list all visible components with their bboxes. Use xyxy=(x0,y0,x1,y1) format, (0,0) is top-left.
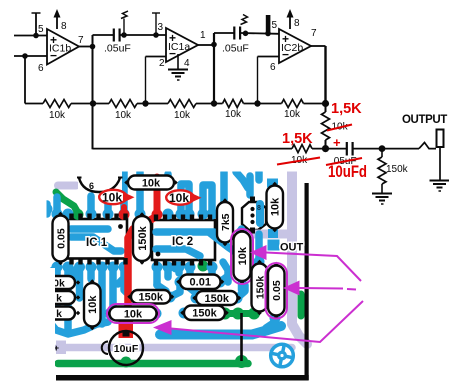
wire row1 d xyxy=(196,103,223,105)
svg-text:10k: 10k xyxy=(49,110,66,121)
wire row1 b xyxy=(71,103,109,105)
capacitor oval 0.05 marked xyxy=(274,262,279,267)
node row1 n3 xyxy=(211,100,217,106)
wire C1 to IC1a xyxy=(121,34,167,36)
svg-text:8: 8 xyxy=(294,18,300,29)
resistor R1 10k xyxy=(43,100,71,108)
resistor R4 10k xyxy=(223,100,244,108)
op-amp U3 IC2b xyxy=(279,29,311,63)
svg-text:7: 7 xyxy=(311,28,317,39)
svg-text:5: 5 xyxy=(38,24,44,35)
svg-text:150k: 150k xyxy=(192,308,217,320)
wire R6 top xyxy=(325,104,327,113)
wire IC1b out riser xyxy=(92,35,94,149)
svg-text:2: 2 xyxy=(159,58,165,69)
svg-text:0.01: 0.01 xyxy=(190,277,211,289)
resistor oval 150k B xyxy=(192,296,197,301)
resistor R5 10k xyxy=(282,100,304,108)
resistor R2 10k xyxy=(109,100,137,108)
green trace top-left xyxy=(56,192,78,213)
op-amp U1 IC1b xyxy=(47,29,79,65)
ground R8 xyxy=(372,193,392,195)
svg-text:8: 8 xyxy=(257,205,261,212)
pcb border right xyxy=(305,183,309,380)
svg-text:10k: 10k xyxy=(87,295,99,314)
IC pins xyxy=(69,214,73,221)
wire pin5 IC1b xyxy=(14,35,47,37)
lavender trace arm xyxy=(254,230,290,239)
svg-text:+: + xyxy=(333,135,341,150)
node pin3 stub xyxy=(155,13,157,35)
node IC1b out xyxy=(90,44,96,50)
wire R6 bottom xyxy=(325,140,327,149)
resistor oval 10k magenta-marked xyxy=(240,228,245,233)
resistor oval 150k A xyxy=(127,294,132,299)
wire jack bump xyxy=(419,143,436,149)
mounting hole crosshair xyxy=(271,344,294,367)
green stub right xyxy=(298,294,305,316)
lavender trace right xyxy=(292,172,307,344)
resistor oval 10k left cut 2 xyxy=(43,291,75,304)
svg-text:5: 5 xyxy=(272,20,278,31)
pot squiggle node A xyxy=(121,11,128,19)
svg-text:IC1b: IC1b xyxy=(49,43,71,55)
svg-text:10k: 10k xyxy=(142,177,161,189)
svg-text:7: 7 xyxy=(78,35,84,46)
green pad top xyxy=(73,209,84,220)
green node big xyxy=(235,355,248,368)
svg-text:k: k xyxy=(56,292,62,304)
jack J1 xyxy=(437,130,444,148)
ground jack xyxy=(430,180,449,182)
node row2 n2 xyxy=(379,145,386,152)
node pin5 junction xyxy=(33,33,39,39)
red highlight 10k #1 xyxy=(99,190,127,204)
op-amp U2 IC1a xyxy=(166,28,198,62)
svg-text:6: 6 xyxy=(89,181,94,191)
node pin6 junction xyxy=(22,53,28,59)
svg-text:1,5K: 1,5K xyxy=(331,101,362,117)
resistor R8 150k xyxy=(378,157,386,184)
capacitor C2 .05uF xyxy=(233,27,235,40)
svg-text:10uF: 10uF xyxy=(114,343,139,355)
resistor oval 150k C xyxy=(180,310,185,315)
svg-text:6: 6 xyxy=(270,62,276,73)
red highlight 10k #2 xyxy=(166,190,194,204)
wire IC2b out riser xyxy=(324,46,326,104)
resistor oval 150k lower-right xyxy=(257,260,262,265)
svg-text:OUTPUT: OUTPUT xyxy=(402,114,447,126)
svg-text:OUT: OUT xyxy=(280,242,304,254)
component arc top-left xyxy=(78,170,122,190)
transistor Q1 pins xyxy=(250,207,254,211)
wire jack ground xyxy=(439,147,441,180)
green ground rail xyxy=(58,360,248,368)
wire row1 a xyxy=(25,103,43,105)
resistor oval 10k top xyxy=(124,180,129,185)
capacitor 10uF circle xyxy=(109,331,143,365)
svg-text:.05uF: .05uF xyxy=(104,43,131,55)
wire IC2b output xyxy=(311,45,326,47)
svg-text:IC 1: IC 1 xyxy=(86,237,108,249)
resistor oval 10k left cut 3 xyxy=(43,307,75,320)
wire to C2 xyxy=(214,32,234,34)
red trace vertical top xyxy=(154,177,161,212)
resistor oval 10k left cut 1 xyxy=(43,276,75,289)
resistor R7 10k crossed xyxy=(292,145,312,153)
node pin5 thick stub xyxy=(266,15,271,34)
wire R8 bottom xyxy=(381,184,383,193)
power arrow pin8 IC1b xyxy=(56,16,58,29)
node IC1a out xyxy=(211,42,217,48)
magenta highlight 10k horizontal xyxy=(107,304,159,323)
svg-text:0.05: 0.05 xyxy=(271,280,283,301)
wire row2 c xyxy=(354,148,420,150)
svg-text:150k: 150k xyxy=(139,292,164,304)
svg-text:6: 6 xyxy=(38,63,44,74)
svg-text:10k: 10k xyxy=(225,109,242,120)
magenta leader 3 xyxy=(171,301,363,342)
left margin clip xyxy=(0,170,47,388)
red pad a xyxy=(152,209,163,220)
wire IC1b output xyxy=(79,46,93,48)
wire pin2 riser xyxy=(145,57,147,104)
pot squiggle node B xyxy=(241,15,248,25)
capacitor oval 0.05 left xyxy=(58,212,63,217)
wire pin5 stub xyxy=(35,13,37,36)
lavender power rail xyxy=(58,344,292,352)
capacitor C1 .05uF xyxy=(113,29,115,42)
ground IC1a pin4 xyxy=(177,54,179,69)
svg-text:.05uF: .05uF xyxy=(222,43,249,55)
green trace mid row xyxy=(207,310,256,317)
power arrow pin8 IC2b xyxy=(289,16,291,29)
magenta highlight 0.05 xyxy=(266,263,288,319)
resistor oval 10k right xyxy=(272,182,277,187)
svg-text:10k: 10k xyxy=(270,197,282,216)
svg-text:10k: 10k xyxy=(284,109,301,120)
svg-text:IC 2: IC 2 xyxy=(172,236,193,248)
wire row1 left riser xyxy=(24,56,26,104)
svg-text:150k: 150k xyxy=(386,164,409,175)
wire pin6 IC1b xyxy=(14,55,47,57)
node row2 n1 xyxy=(322,145,329,152)
node row1 n4 xyxy=(254,100,260,106)
lavender trace top-left xyxy=(58,182,76,190)
capacitor C3 xyxy=(346,142,348,156)
transistor Q1 body xyxy=(242,202,266,230)
wire row2 xyxy=(93,148,293,150)
IC2 body xyxy=(152,220,215,260)
svg-text:150k: 150k xyxy=(254,276,266,300)
resistor oval 150k mid xyxy=(140,212,145,217)
wire row1 c xyxy=(137,103,168,105)
svg-text:IC2b: IC2b xyxy=(281,42,303,54)
svg-text:0.05: 0.05 xyxy=(55,228,67,249)
node row1 n2 xyxy=(142,100,148,106)
svg-text:10k: 10k xyxy=(124,308,143,320)
svg-text:3: 3 xyxy=(158,22,164,33)
svg-text:150k: 150k xyxy=(137,225,149,250)
svg-text:8: 8 xyxy=(61,21,67,32)
svg-text:10k: 10k xyxy=(237,246,249,265)
capacitor oval 0.01 xyxy=(176,279,181,284)
wire C2 to IC2b xyxy=(241,32,279,35)
svg-text:10k: 10k xyxy=(169,191,189,205)
magenta leader 2 xyxy=(299,287,343,290)
wire row1 e xyxy=(244,103,282,105)
red trace cap block xyxy=(119,318,134,338)
svg-text:10k: 10k xyxy=(174,110,191,121)
wire row2 b xyxy=(312,148,346,150)
svg-text:IC1a: IC1a xyxy=(168,41,190,53)
resistor oval 7k5 xyxy=(223,198,228,203)
svg-text:k: k xyxy=(56,308,62,320)
svg-text:4: 4 xyxy=(184,58,190,69)
wire pin2 IC1a xyxy=(146,56,167,58)
wire pin6 riser xyxy=(257,57,259,104)
red pad b xyxy=(119,209,130,220)
pcb top cut xyxy=(46,158,310,172)
resistor oval 10k lower-left xyxy=(90,279,95,284)
green pad IC2 bottom xyxy=(198,261,209,272)
svg-text:7k5: 7k5 xyxy=(220,213,232,231)
wire IC1a out riser xyxy=(213,33,215,104)
wire to C1 xyxy=(93,34,114,36)
resistor R3 10k xyxy=(168,100,196,108)
magenta leader 1 xyxy=(266,253,361,282)
lavender rail pad ring xyxy=(102,342,108,355)
black jumper wire xyxy=(240,313,243,361)
svg-text:150k: 150k xyxy=(205,293,230,305)
wire row1 f xyxy=(304,103,326,105)
svg-text:10k: 10k xyxy=(115,110,132,121)
magenta highlight 10k vertical xyxy=(231,229,253,284)
node row1 n5 xyxy=(322,100,329,107)
red trace artery xyxy=(128,216,157,320)
svg-text:1: 1 xyxy=(200,30,206,41)
svg-text:1,5K: 1,5K xyxy=(282,131,313,147)
svg-text:10k: 10k xyxy=(102,191,122,205)
blue copper traces xyxy=(87,196,95,212)
wire IC1a output xyxy=(198,44,214,46)
wire pin6 IC2b xyxy=(258,56,280,58)
wire R8 top xyxy=(381,149,383,157)
IC1 body xyxy=(68,219,128,259)
green node rail end xyxy=(121,357,132,368)
svg-text:10uFd: 10uFd xyxy=(328,162,367,181)
node row1 n1 xyxy=(90,100,96,106)
resistor R6 10k crossed xyxy=(322,112,330,140)
resistor oval 10k marked xyxy=(106,311,111,316)
pcb border bottom xyxy=(56,375,309,381)
